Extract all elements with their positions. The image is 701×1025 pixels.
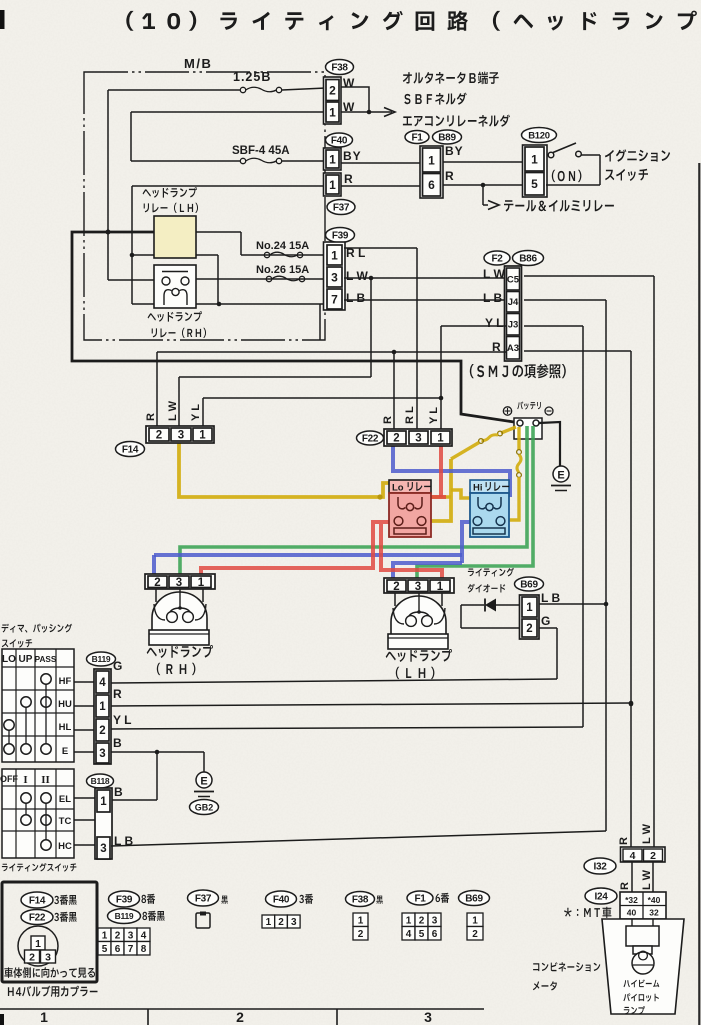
label G B69 [541,614,550,628]
svg-text:R L: R L [404,406,416,424]
svg-text:M/B: M/B [184,56,212,71]
wire YL J3 right down [524,326,583,727]
wire green battery to headlamp LH pin3 [417,426,533,581]
svg-text:Hi: Hi [473,483,483,494]
svg-text:B69: B69 [465,894,483,905]
svg-text:6: 6 [115,944,121,955]
connector F40 [324,133,353,170]
wire RL F39 to F22 pin3 [344,248,417,431]
ignition switch contacts [546,143,600,185]
label YL F22 (rotated) [428,407,440,424]
label R F22 (rotated) [382,416,394,424]
wire LW C5 right to I32 [524,276,654,849]
svg-text:3: 3 [415,433,421,445]
label LB B118 [114,834,133,848]
svg-text:R: R [382,416,394,424]
svg-text:4: 4 [406,929,412,940]
svg-text:F1: F1 [414,894,426,905]
svg-text:F40: F40 [273,895,290,906]
fuse No.26 15A [196,264,324,282]
label W pin2 [343,76,355,90]
wire yellow battery fusible link diagonal [451,427,516,459]
svg-text:EL: EL [59,794,71,805]
svg-text:F14: F14 [122,445,139,456]
svg-text:5: 5 [531,177,538,191]
svg-text:1: 1 [198,577,205,589]
connector B118 [87,774,114,859]
wire F38 pin1 W to air-con relay holder [341,108,395,117]
wire B to B118 pin1 [111,752,157,800]
label B B119 [113,736,122,750]
svg-text:2: 2 [154,577,160,589]
svg-text:SBF-4 45A: SBF-4 45A [232,145,290,157]
svg-text:L B: L B [483,291,502,305]
svg-text:7: 7 [331,292,338,306]
svg-text:E: E [62,746,68,757]
wire to tail&illumi relay [483,185,499,210]
svg-text:3: 3 [128,930,134,941]
svg-text:3: 3 [331,270,338,284]
svg-text:3: 3 [176,577,182,589]
svg-text:G: G [541,614,550,628]
fuse 1.25B [233,70,282,93]
legend H4 coupler box [2,882,97,982]
label LW between (rotated) [641,869,653,890]
svg-text:BY: BY [445,144,464,158]
svg-text:1: 1 [99,701,106,713]
label H4バルブ用カプラー [8,986,98,997]
connector F22 [357,429,453,446]
svg-text:I: I [23,774,27,786]
wire YL J3 to F22 pin1 [439,326,507,431]
wire yellow F14 LW to Lo relay coil [179,441,390,500]
svg-text:I32: I32 [593,862,607,873]
svg-text:HL: HL [59,722,72,733]
label R [344,172,353,186]
wire LB J4 right down [524,300,608,831]
svg-text:R: R [113,687,122,701]
svg-text:2: 2 [393,581,399,593]
svg-text:J3: J3 [508,320,519,331]
svg-text:4: 4 [141,930,147,941]
svg-text:1: 1 [331,248,338,262]
wire relay coil bottom [132,255,221,306]
label ON [552,170,582,182]
connector F39 [324,228,355,311]
svg-text:F2: F2 [491,254,503,265]
wire G B69 down to switch G line [539,628,557,679]
svg-text:2: 2 [650,850,656,862]
svg-text:No.24 15A: No.24 15A [256,240,309,252]
lighting switch table [0,769,74,858]
svg-text:Lo: Lo [392,483,404,494]
connector I24 [585,888,666,919]
label ヘッドランプリレーRH [148,311,206,338]
scan artifact bottom-left [0,1014,4,1025]
svg-text:E: E [200,776,207,788]
svg-text:1: 1 [266,917,272,928]
svg-text:1: 1 [329,178,336,192]
wire R from pin left to relays x=132 [130,186,324,304]
svg-text:F22: F22 [29,913,46,924]
svg-text:2: 2 [393,433,399,445]
label エアコンリレーホルダ [403,115,510,127]
svg-text:5: 5 [102,944,108,955]
label MT車 [564,907,611,918]
wire red Lo relay contact to headlamp RH pin1 [201,522,389,577]
svg-text:1.25B: 1.25B [233,70,271,84]
svg-text:3: 3 [432,915,438,926]
fuse No.24 15A [241,240,324,258]
wire yellow battery fusible link vertical to Hi contact [509,427,521,520]
svg-text:3: 3 [45,951,51,963]
svg-text:3: 3 [415,581,421,593]
svg-text:TC: TC [59,816,72,827]
svg-text:E: E [557,470,564,482]
wire G B119 to B69 [111,679,557,683]
svg-text:2: 2 [329,83,336,97]
svg-text:HF: HF [59,676,72,687]
lighting switch contacts [21,793,51,850]
svg-text:F14: F14 [29,896,46,907]
label R above I32 (rotated) [618,837,630,845]
wire red F22 pin1 to Lo relay coil [429,446,446,497]
legend F40 [262,891,313,928]
label SBFホルダ [404,93,466,105]
label ヘッドランプLH [386,649,452,679]
label R right of F1 [445,169,454,183]
svg-text:Y L: Y L [485,316,503,330]
label ハイビームパイロットランプ [623,980,659,1015]
connector F38 [324,60,354,125]
label RL [346,246,365,260]
wire W from fuse 1.25B to F38 pin 2 [108,88,326,90]
label R F14 (rotated) [145,413,157,421]
label LW [346,269,368,283]
svg-text:F37: F37 [333,203,350,214]
svg-text:PASS: PASS [35,655,57,664]
label オルタネータB端子 [403,72,499,85]
combination meter body [602,919,684,1014]
svg-text:L W: L W [641,869,653,890]
zone frame line [0,1009,484,1025]
wire x108 to relay RH coil [108,279,154,281]
label LW F14 (rotated) [167,400,179,421]
svg-text:B118: B118 [91,776,110,786]
wire W from F38 pin1 to SBF-4 fuse [131,112,324,161]
dimmer switch contacts [4,674,51,754]
svg-text:2: 2 [526,623,532,635]
label YL F14 (rotated) [190,404,202,421]
svg-text:L W: L W [346,269,368,283]
svg-text:6: 6 [428,178,435,192]
svg-text:B: B [114,785,123,799]
svg-text:1: 1 [40,1009,48,1025]
svg-text:A3: A3 [507,343,519,354]
label SMJ reference [470,364,566,379]
ground E GB2 [194,772,214,797]
wire battery minus to ground [539,422,560,466]
label RL F22 (rotated) [404,406,416,424]
wires lighting switch to B118 [74,798,97,845]
label ライティングスイッチ [2,863,77,872]
svg-text:B86: B86 [519,254,537,265]
svg-text:2: 2 [358,929,364,940]
svg-text:BY: BY [343,149,362,163]
connector F1 B89 [405,130,462,198]
svg-text:1: 1 [406,915,412,926]
wire R F1 to B120 [443,183,523,188]
wire yellow Lo coil right stub [431,495,451,499]
label コンビネーションメータ [533,962,600,990]
wire battery feed thick [72,230,514,423]
svg-text:R: R [445,169,454,183]
wire LW to F14 pin3 [179,278,371,428]
oval GB2 [190,800,219,815]
connector F14 [116,426,215,457]
svg-text:HC: HC [58,841,72,852]
legend F39/B119 grid [98,891,165,955]
headlamp RH [145,574,215,645]
dimmer switch table [2,649,74,762]
label LB at J4 [483,291,502,305]
relay Lo リレー [389,480,431,537]
svg-text:F38: F38 [352,895,369,906]
svg-text:1: 1 [437,581,444,593]
wire R to F1 pin6 [341,185,420,187]
high-beam pilot lamp bulb [632,951,654,974]
diode [461,599,520,612]
label LB B69 [541,591,560,605]
label BY [343,149,362,163]
label YL at J3 [485,316,503,330]
battery バッテリ [503,401,553,439]
svg-text:3: 3 [100,843,106,855]
svg-text:1: 1 [437,433,444,445]
wire vertical battery feed x=108 [106,90,111,280]
svg-text:3: 3 [99,748,105,760]
svg-text:B119: B119 [115,911,134,921]
label スイッチ (ignition) [605,169,648,181]
svg-text:J4: J4 [508,297,519,308]
label LW at C5 [483,267,505,281]
wire YL B119 to B86 J3 net [111,727,583,729]
svg-text:L W: L W [483,267,505,281]
wire LB B69 to main LB [539,603,606,605]
label G B119 [113,659,122,673]
zone number 2 [236,1009,244,1025]
legend B69 [459,891,490,941]
scan artifact top-left [0,10,5,29]
connector B120 [522,128,557,198]
label R between (rotated) [619,882,631,890]
scan artifact right edge [698,163,700,1025]
svg-text:1: 1 [428,153,435,167]
svg-text:F1: F1 [411,133,423,144]
svg-text:B: B [113,736,122,750]
label ヘッドランプRH [147,645,213,675]
label ディマ・パッシングスイッチ [2,624,73,648]
svg-text:1: 1 [199,430,206,442]
label B B118 [114,785,123,799]
title ライティング回路ヘッドランプ [126,11,697,31]
wire LW F39 to B86 C5 [344,276,507,281]
svg-text:I24: I24 [594,892,608,903]
svg-text:R: R [344,172,353,186]
svg-text:B69: B69 [520,580,538,591]
svg-text:R: R [145,413,157,421]
svg-text:2: 2 [419,915,425,926]
M/B label [184,56,212,71]
M/B fuse box boundary (dash-dot) [84,72,325,340]
svg-text:F37: F37 [195,894,212,905]
svg-text:1: 1 [526,602,533,614]
svg-text:F40: F40 [331,136,348,147]
wire red Lo relay contact to headlamp LH pin1 [381,524,442,581]
svg-text:*40: *40 [648,895,661,905]
zone number 1 [40,1009,48,1025]
svg-text:1: 1 [472,915,478,926]
svg-text:32: 32 [649,908,659,918]
wire relay LH to fuse No.24 [196,232,241,255]
label R B119 [113,687,122,701]
wire B B119 to ground [111,750,204,772]
svg-text:2: 2 [278,917,284,928]
label ライティングダイオード [468,568,514,593]
svg-text:II: II [41,774,50,786]
svg-text:F39: F39 [332,231,349,242]
svg-text:1: 1 [100,796,107,808]
svg-text:L W: L W [167,400,179,421]
legend F1 [402,891,449,940]
wire relay RH bottom [196,304,326,340]
svg-text:1: 1 [329,152,336,166]
wires dimmer switch to B119 [74,682,96,752]
svg-text:GB2: GB2 [195,803,214,813]
svg-text:3: 3 [291,917,297,928]
label LW above I32 (rotated) [641,823,653,844]
svg-text:F22: F22 [362,434,379,445]
svg-text:1: 1 [35,938,41,950]
svg-text:No.26 15A: No.26 15A [256,264,309,276]
wire F38 pin2 W right [341,87,369,112]
svg-text:Y L: Y L [190,404,202,421]
svg-text:R: R [618,837,630,845]
svg-text:3: 3 [424,1009,432,1025]
diode return wire [461,605,520,628]
label W pin1 [343,100,355,114]
svg-text:3: 3 [178,430,184,442]
wire YL to F14 pin1 [203,398,441,428]
connector B69 [515,577,544,639]
relay LH (highlighted box) [154,216,196,258]
connector I32 [584,847,665,874]
connector B119 [87,652,116,764]
wire green battery to headlamp RH pin3 [180,426,527,577]
svg-text:F39: F39 [116,895,133,906]
svg-text:2: 2 [29,951,35,963]
svg-text:L W: L W [641,823,653,844]
svg-text:OFF: OFF [0,774,18,784]
svg-text:L B: L B [541,591,560,605]
wire R B119 to I32 net [111,701,633,706]
svg-text:F38: F38 [331,63,348,74]
svg-text:4: 4 [630,850,636,862]
headlamp LH [384,578,454,649]
svg-text:4: 4 [99,677,106,689]
connector F2 B86 [484,251,544,362]
wire yellow branch to Hi relay coil [451,490,470,498]
svg-text:B89: B89 [438,133,456,144]
connector F37 pin R [324,173,342,196]
svg-text:C5: C5 [507,274,520,285]
svg-text:HU: HU [58,699,72,710]
label イグニション [605,149,670,161]
svg-text:2: 2 [115,930,121,941]
oval F37 [327,200,355,215]
svg-text:2: 2 [472,929,478,940]
wire R A3 to F14 pin2 [157,350,507,428]
wire blue Hi relay contact to headlamps pin2 [154,522,471,581]
svg-text:8: 8 [141,944,147,955]
svg-text:L B: L B [346,291,365,305]
svg-text:W: W [343,76,355,90]
svg-text:UP: UP [19,654,33,665]
svg-text:1: 1 [102,930,108,941]
label テール＆イルミリレー [504,200,614,212]
svg-text:2: 2 [99,725,105,737]
svg-text:R: R [619,882,631,890]
svg-text:6: 6 [432,929,438,940]
svg-text:40: 40 [627,908,637,918]
label LB [346,291,365,305]
wire BY F1 to B120 [443,161,523,163]
legend F38 [346,892,383,941]
label R at A3 [492,340,501,354]
label YL B119 [113,713,131,727]
svg-text:2: 2 [236,1009,244,1025]
svg-text:1: 1 [531,152,538,166]
relay RH [154,265,196,308]
label BY right of F1 [445,144,464,158]
svg-text:B119: B119 [92,654,111,664]
legend F37 [188,890,228,928]
svg-text:Y L: Y L [428,407,440,424]
svg-text:G: G [113,659,122,673]
zone number 3 [424,1009,432,1025]
wire R to F22 pin2 [393,352,395,431]
svg-text:1: 1 [329,105,336,119]
svg-text:Y L: Y L [113,713,131,727]
wire blue F22 pin2 to Hi relay coil [393,446,510,497]
relay Hi リレー [470,480,509,537]
svg-text:1: 1 [358,915,364,926]
wire yellow to Lo relay contact [431,459,451,521]
svg-text:2: 2 [156,430,162,442]
wire R A3 right down to I32 [524,351,633,849]
wire LB B118 to B86 J4 net [111,831,606,846]
svg-text:5: 5 [419,929,425,940]
wire LB F39 to B86 J4 [344,299,507,301]
ground E battery [551,466,571,491]
label ヘッドランプリレーLH [143,187,198,213]
fuse SBF-4 45A [131,145,324,164]
svg-text:7: 7 [128,944,134,955]
svg-text:LO: LO [2,654,16,665]
svg-text:*32: *32 [625,895,638,905]
wires I32 to I24 [632,862,653,892]
svg-text:B120: B120 [528,130,550,141]
